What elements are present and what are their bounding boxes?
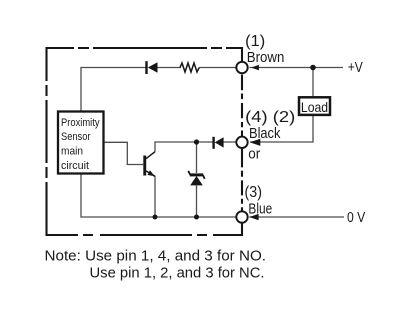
arrowhead into terminal 3 — [249, 214, 258, 220]
svg-text:(3): (3) — [245, 184, 263, 201]
terminal 1 circle (brown) — [236, 62, 247, 73]
resistor R1 — [180, 63, 199, 72]
proximity sensor main circuit box — [58, 112, 104, 174]
junction dot at zener top / collector rail — [194, 139, 199, 144]
wire: zener bottom lead — [196, 186, 198, 218]
sensor enclosure dash-dot border: left side — [45, 47, 47, 236]
arrowhead into terminal 1 — [251, 65, 259, 71]
terminal 3 circle (blue) — [236, 211, 247, 222]
wire: diode D2 to terminal 2 — [223, 141, 236, 143]
wire: emitter down to bottom rail — [154, 176, 156, 217]
svg-text:Proximity: Proximity — [61, 117, 100, 129]
svg-text:+V: +V — [348, 60, 363, 76]
svg-text:main: main — [61, 146, 83, 158]
wire: bottom rail from box bottom to terminal 3 — [81, 174, 237, 218]
diode D2 (to terminal 2) — [212, 137, 223, 149]
wire: Load box bottom down and left to terminal 2 — [250, 115, 313, 142]
wire: +V line from terminal 1 — [249, 67, 343, 69]
junction dot zener / bottom rail — [194, 215, 199, 220]
zener diode ZD1 — [188, 171, 204, 186]
junction dot emitter / bottom rail — [153, 215, 158, 220]
svg-text:Black: Black — [249, 126, 281, 142]
transistor Q1 (NPN output) — [143, 152, 155, 177]
wire: from main circuit box top up and right to diode — [81, 68, 146, 112]
svg-text:Blue: Blue — [248, 201, 272, 217]
wire: 0 V line from terminal 3 — [249, 216, 344, 218]
sensor enclosure dash-dot border: bottom side — [46, 234, 243, 236]
terminal 2 circle (black) — [236, 137, 247, 148]
svg-text:or: or — [248, 146, 260, 162]
wire: +V junction down to Load box — [312, 68, 314, 98]
wire: zener top lead — [196, 142, 198, 173]
svg-text:Sensor: Sensor — [61, 131, 91, 143]
junction dot at +V / load tap — [310, 65, 316, 71]
svg-text:(4) (2): (4) (2) — [245, 109, 295, 126]
svg-text:Brown: Brown — [247, 50, 285, 66]
diode D1 (top, reverse-polarity protection) — [145, 61, 157, 74]
wire: diode to resistor — [158, 67, 182, 69]
svg-text:0 V: 0 V — [347, 210, 366, 226]
arrowhead into terminal 2 — [250, 139, 260, 146]
sensor enclosure dash-dot border: right side through terminals — [241, 47, 243, 236]
svg-text:(1): (1) — [245, 33, 265, 50]
wire: main circuit box to transistor base — [104, 142, 143, 164]
svg-text:circuit: circuit — [61, 160, 89, 172]
sensor enclosure dash-dot border: top side — [46, 47, 243, 49]
svg-text:Note: Use pin 1, 4, and 3 for: Note: Use pin 1, 4, and 3 for NO. — [45, 248, 267, 264]
Load box — [299, 97, 330, 115]
wire: resistor to terminal 1 — [199, 67, 236, 69]
wire: collector up to horizontal rail toward diode D2 — [155, 142, 213, 152]
svg-text:Load: Load — [301, 99, 328, 115]
svg-text:Use pin 1, 2, and 3 for NC.: Use pin 1, 2, and 3 for NC. — [90, 266, 265, 282]
